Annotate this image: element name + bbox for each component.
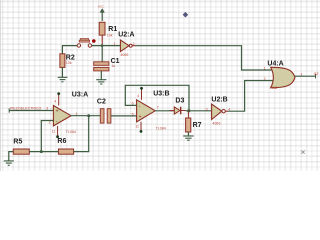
svg-text:VCC: VCC [98,4,104,8]
OR gate U4:A [264,60,303,90]
svg-text:2: 2 [264,77,266,81]
wire U3:A output to C2 with node to R6 [71,114,100,117]
wire C2 to U3:B non-inverting input [111,115,137,117]
svg-text:7432: 7432 [269,86,277,90]
resistor R6 [57,138,73,154]
svg-text:U2:B: U2:B [211,96,227,103]
svg-text:R7: R7 [193,122,202,129]
wire from R2 top to switch [62,46,77,54]
terminal PIEZOELECTRICO [9,107,53,113]
wire U3:B output to D3 [155,110,174,112]
wire U4:A output to terminal BZ [295,72,319,78]
svg-text:1: 1 [264,66,266,70]
svg-text:11: 11 [135,124,139,128]
svg-text:BZ: BZ [314,72,318,76]
svg-text:TL084: TL084 [156,126,166,130]
svg-text:R5: R5 [13,138,22,145]
resistor R1 [99,22,117,45]
diode D3 [170,98,186,115]
resistor R2 [60,54,75,77]
svg-text:10k: 10k [66,61,72,65]
ground under C1 [96,80,106,84]
svg-text:2: 2 [133,42,135,46]
svg-text:R6: R6 [57,138,66,145]
sheet origin marker [183,12,189,18]
svg-text:U3:A: U3:A [72,92,88,99]
svg-text:U2:A: U2:A [118,32,134,39]
svg-text:4: 4 [137,94,139,98]
svg-text:3: 3 [206,107,208,111]
resistor R5 [13,138,29,154]
svg-text:D3: D3 [175,98,184,105]
inverter U2:B [206,96,231,125]
op-amp U3:A [49,92,89,139]
cursor cross marker [301,150,304,153]
svg-text:R1: R1 [108,26,117,33]
svg-text:4069: 4069 [120,53,128,57]
op-amp U3:B [132,87,170,133]
svg-text:U3:B: U3:B [153,90,169,97]
resistor R7 [186,111,202,136]
svg-text:3: 3 [46,107,48,111]
svg-text:+: + [139,114,142,120]
wire switch to U2:A input with node [92,44,121,47]
svg-text:4: 4 [54,100,56,104]
svg-text:1u: 1u [111,64,115,68]
svg-text:1: 1 [114,42,116,46]
wire D3 to U2:B with junction node [186,109,212,112]
inverter U2:A [114,32,136,58]
svg-text:10k: 10k [107,34,113,38]
wire U2:A out to U4:A input 1 [136,46,275,70]
wire U3:A inverting input to R5/R6 node [41,121,53,152]
wire U2:B out to U4:A input 2 [228,81,274,112]
wire bottom rail through R5 R6 [9,116,89,161]
power flag VCC [98,4,105,21]
svg-text:11: 11 [52,129,56,133]
pushbutton switch [77,39,95,48]
svg-text:TL084: TL084 [66,130,76,134]
ground at bottom left [4,161,14,165]
ground under R7 [183,136,193,140]
svg-text:4069: 4069 [212,122,220,126]
capacitor C1 [94,46,120,80]
svg-text:5: 5 [132,112,134,116]
svg-text:U4:A: U4:A [267,60,283,67]
svg-text:+: + [56,108,59,114]
capacitor C2 [97,98,111,123]
feedback wire node to U3:B inverting input [125,85,189,111]
svg-text:7: 7 [157,106,159,110]
svg-text:C2: C2 [97,98,106,105]
ground under R2 [58,77,68,82]
